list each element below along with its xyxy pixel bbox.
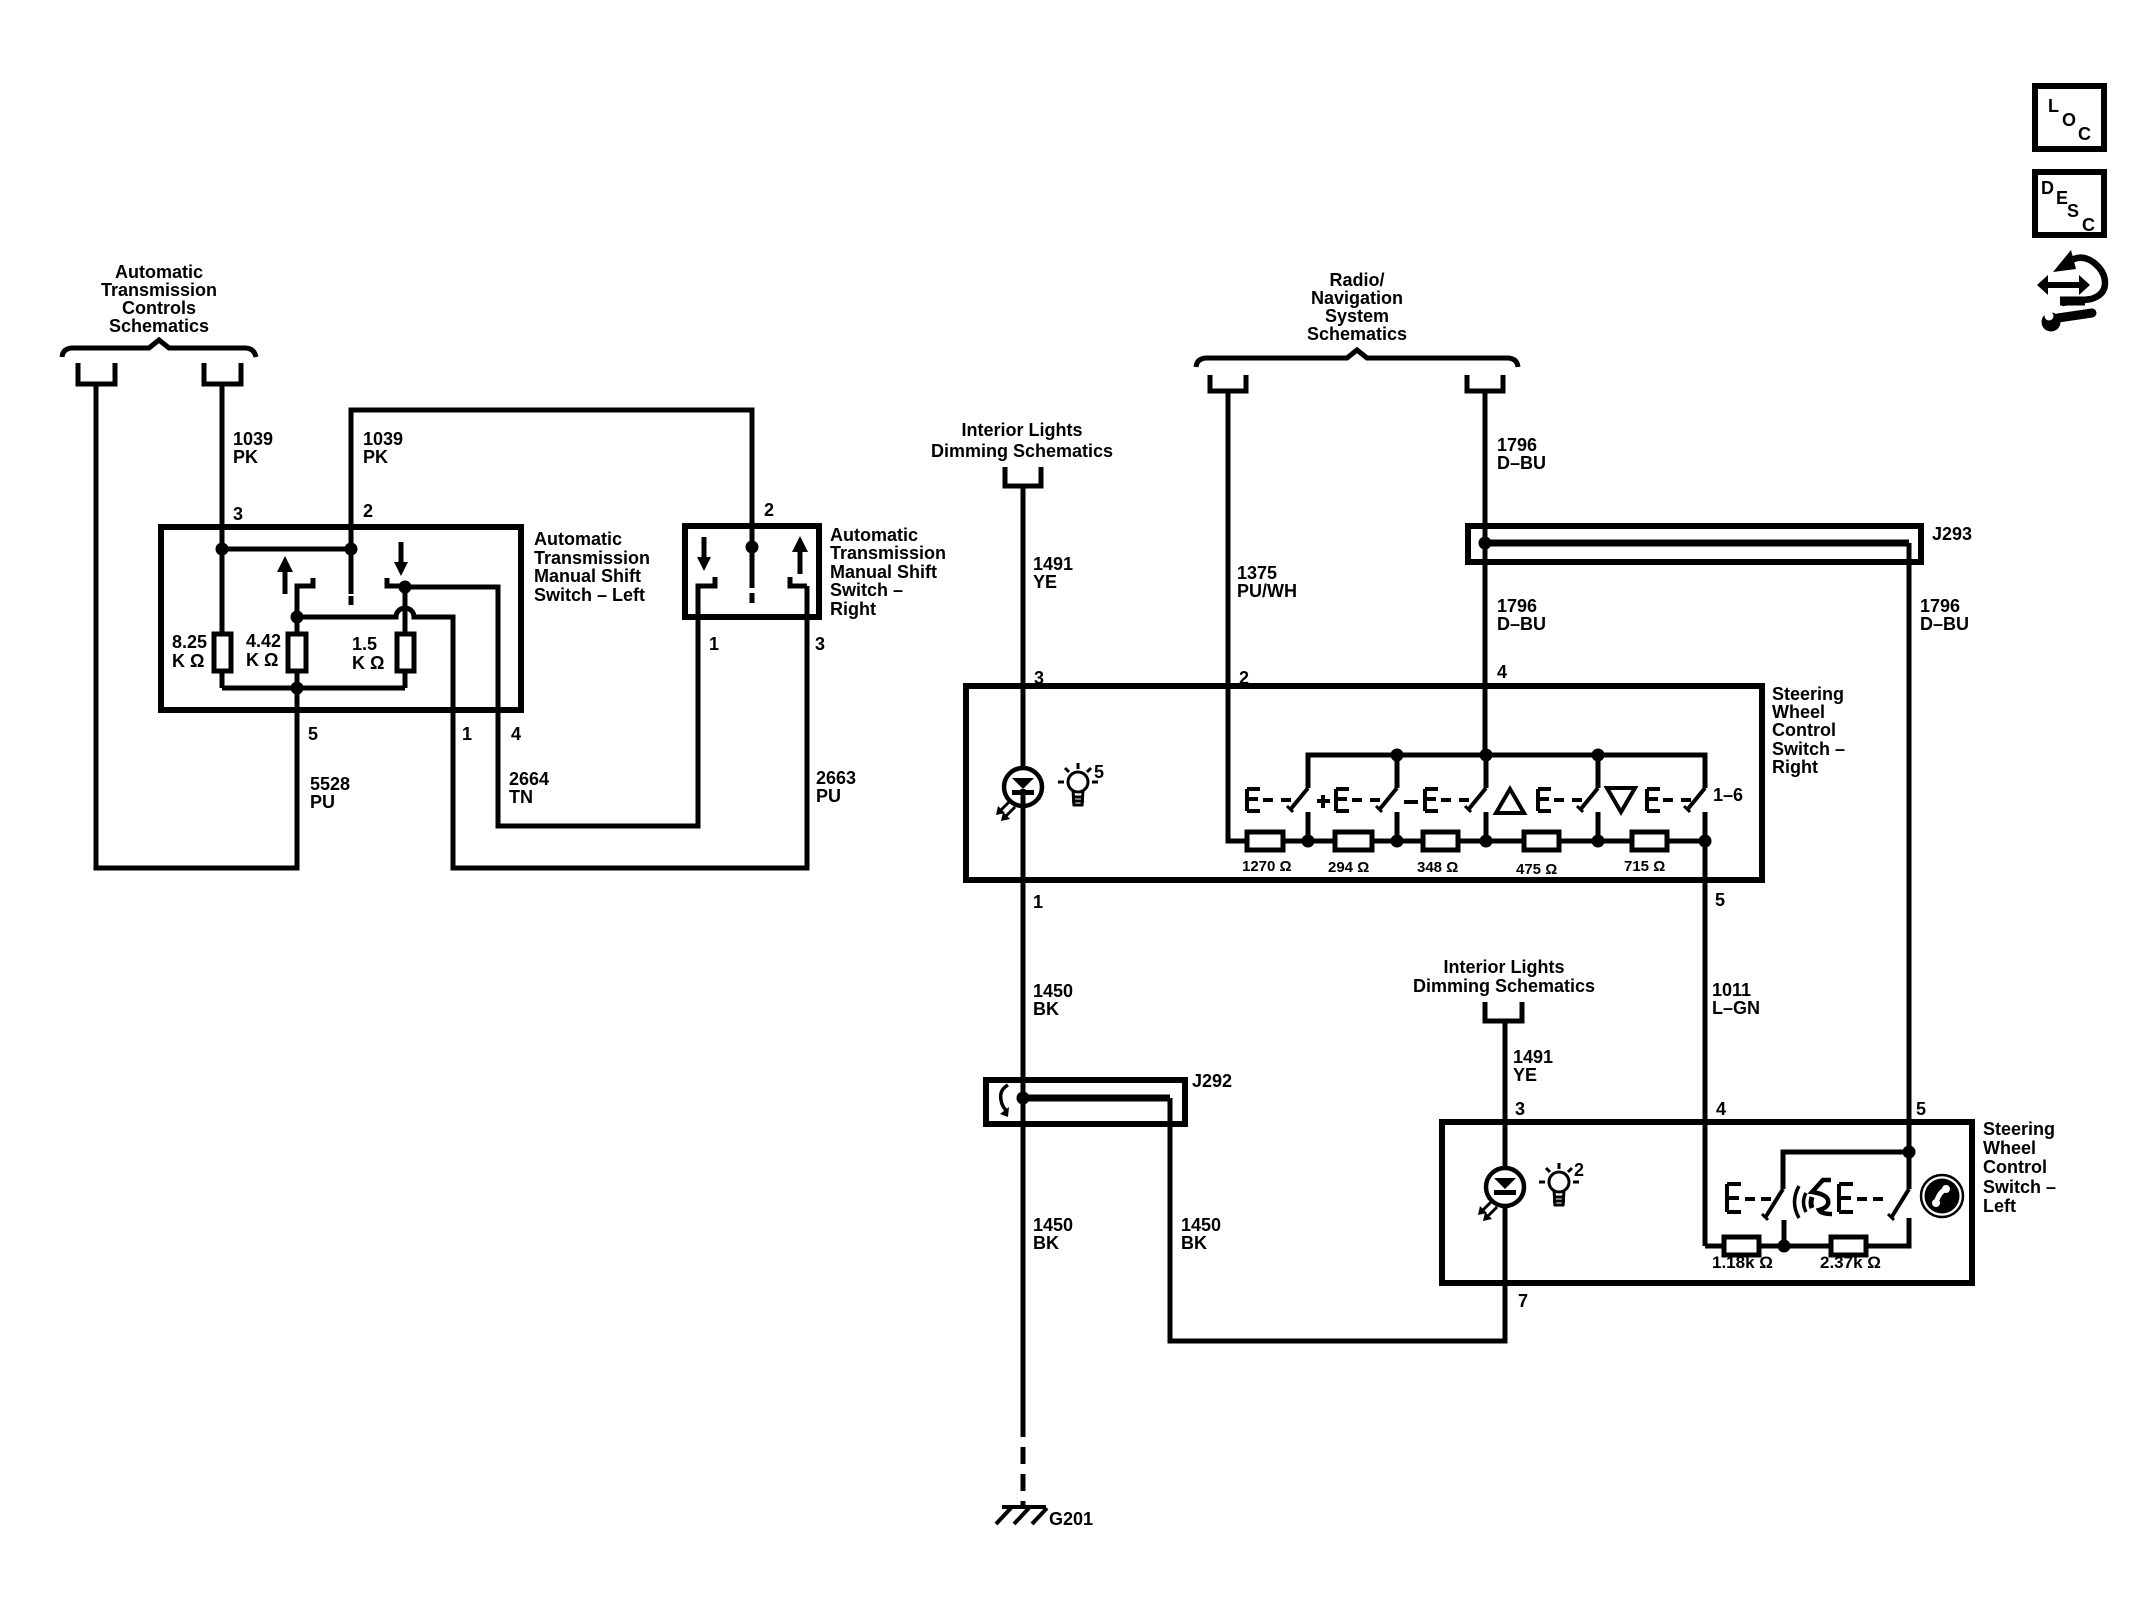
svg-text:Wheel: Wheel <box>1983 1138 2036 1158</box>
svg-text:1–6: 1–6 <box>1713 785 1743 805</box>
svg-text:K Ω: K Ω <box>352 653 384 673</box>
svg-text:D: D <box>2041 178 2054 198</box>
junction dot (stub sw2) <box>1391 835 1404 848</box>
box: Automatic Transmission Manual Shift Switch - Left <box>161 527 521 710</box>
svg-text:Dimming Schematics: Dimming Schematics <box>931 441 1113 461</box>
title: Radio/Navigation System Schematics <box>1307 270 1407 344</box>
svg-text:1796: 1796 <box>1497 435 1537 455</box>
svg-text:475 Ω: 475 Ω <box>1516 861 1557 878</box>
down arrow (right box) <box>697 537 711 571</box>
box: Automatic Transmission Manual Shift Switch - Right <box>685 526 819 617</box>
label 1039 PK (pin 2 wire) <box>363 429 403 467</box>
lamp symbol (illumination, SWCS-Left) <box>1539 1163 1579 1206</box>
up arrow (shift up, left box) <box>277 556 293 594</box>
switch top rail (common, SWCS-Right) <box>1308 755 1705 788</box>
svg-text:Control: Control <box>1983 1157 2047 1177</box>
svg-text:7: 7 <box>1518 1291 1528 1311</box>
svg-text:715 Ω: 715 Ω <box>1624 858 1665 875</box>
LED (backlight, SWCS-Right) <box>996 768 1042 821</box>
connector lead 2 to A/T Controls Schematics <box>204 363 241 384</box>
svg-text:1270 Ω: 1270 Ω <box>1242 858 1292 875</box>
svg-text:Radio/: Radio/ <box>1329 270 1384 290</box>
label 2664 TN <box>509 769 549 807</box>
svg-text:1: 1 <box>462 724 472 744</box>
down arrow (shift down, left box) <box>394 542 408 576</box>
wire 1491 continues through LED to pin 1 <box>1021 806 1026 880</box>
wire 1491 through LED to pin 7 <box>1503 1206 1508 1283</box>
svg-text:Transmission: Transmission <box>534 548 650 568</box>
phone icon <box>1921 1175 1963 1217</box>
wire 1011 L-GN (SWCS-Right pin 5 to SWCS-Left pin 4) <box>1703 841 1708 1246</box>
junction dot (rail / pin 5) <box>291 682 304 695</box>
resistor 2.37k Ohm <box>1831 1237 1866 1255</box>
connector lead right to Radio/Navigation Schematics <box>1467 375 1503 391</box>
junction dot (top rail / 1796 pin 5) <box>1903 1146 1916 1159</box>
svg-text:Right: Right <box>1772 757 1818 777</box>
junction dot (top rail sw2) <box>1391 749 1404 762</box>
resistor 4.42 KOhm <box>288 634 306 671</box>
resistor 8.25 KOhm <box>214 634 231 671</box>
svg-text:K Ω: K Ω <box>246 650 278 670</box>
svg-text:1375: 1375 <box>1237 563 1277 583</box>
switch 3 (-): riser, contact E, dashes, blade, stub <box>1404 755 1486 841</box>
svg-text:Schematics: Schematics <box>1307 324 1407 344</box>
junction dot (stub sw3) <box>1480 835 1493 848</box>
junction dot (rail / pin 5) <box>1699 835 1712 848</box>
box: Steering Wheel Control Switch - Right <box>966 686 1762 880</box>
brace (Automatic Transmission Controls Schematics) <box>62 340 256 357</box>
wire rail 715-pin5 <box>1667 839 1705 844</box>
splice pack J292 box <box>986 1080 1185 1124</box>
junction dot (stub sw4) <box>1592 835 1605 848</box>
svg-text:C: C <box>2078 124 2091 144</box>
svg-text:Transmission: Transmission <box>830 543 946 563</box>
svg-text:Switch –: Switch – <box>830 580 903 600</box>
phone switch: contact E, dashes, blade, stub <box>1839 1184 1909 1220</box>
svg-text:Dimming Schematics: Dimming Schematics <box>1413 976 1595 996</box>
wire 1375 PU/WH (to SWCS-Right pin 2) <box>1226 391 1231 841</box>
LED (backlight, SWCS-Left) <box>1478 1168 1524 1221</box>
svg-text:Navigation: Navigation <box>1311 288 1403 308</box>
splice pigtail symbol (J292) <box>1000 1085 1009 1117</box>
svg-text:System: System <box>1325 306 1389 326</box>
svg-text:Switch – Left: Switch – Left <box>534 585 645 605</box>
svg-text:1.18k Ω: 1.18k Ω <box>1712 1253 1773 1272</box>
svg-text:4: 4 <box>1716 1099 1726 1119</box>
connector lead to Interior Lights Dimming Schematics (top) <box>1005 467 1041 486</box>
svg-text:Switch –: Switch – <box>1983 1177 2056 1197</box>
wire 1450 BK (SWCS-Right pin 1 to J292 to G201) <box>1021 880 1026 1437</box>
junction dot (J293) <box>1479 537 1492 550</box>
svg-text:1796: 1796 <box>1920 596 1960 616</box>
junction dot (stub sw1) <box>1302 835 1315 848</box>
svg-text:1039: 1039 <box>233 429 273 449</box>
svg-text:J293: J293 <box>1932 524 1972 544</box>
svg-text:YE: YE <box>1033 572 1057 592</box>
wire 1375 bottom rail entry (pin 2 into resistor ladder) <box>1228 686 1247 841</box>
label 1796 D-BU (right branch) <box>1920 596 1969 634</box>
svg-text:1450: 1450 <box>1033 1215 1073 1235</box>
svg-text:Schematics: Schematics <box>109 316 209 336</box>
wire rail 348-475 <box>1458 839 1524 844</box>
svg-text:1796: 1796 <box>1497 596 1537 616</box>
wire rail 294-348 <box>1372 839 1423 844</box>
svg-text:Control: Control <box>1772 720 1836 740</box>
svg-text:4: 4 <box>1497 662 1507 682</box>
wire 1796 D-BU (J293 branch, right vertical) <box>1907 543 1912 1152</box>
junction dot (top rail / 1796 pin 4) <box>1480 749 1493 762</box>
wire 2664 TN (pin 4 to right switch pin 1) <box>405 586 698 826</box>
wire 5528 PU (connector 1 to pin 5) <box>96 384 297 868</box>
svg-text:Automatic: Automatic <box>115 262 203 282</box>
up arrow (right box) <box>792 536 808 574</box>
wire 2663 PU (pin 1 to right switch pin 3) with hop over 1.5K wire <box>297 586 807 868</box>
resistor 1.18k Ohm <box>1724 1237 1759 1255</box>
voice switch: contact E, dashes, blade, stub <box>1727 1184 1784 1246</box>
title: Automatic Transmission Controls Schematics <box>101 262 217 336</box>
svg-text:J292: J292 <box>1192 1071 1232 1091</box>
svg-text:Automatic: Automatic <box>534 529 622 549</box>
J292 bus bar <box>1023 1095 1170 1102</box>
svg-text:Steering: Steering <box>1983 1119 2055 1139</box>
label 8.25 K Ohm <box>172 632 207 671</box>
switch top rail (SWCS-Left) <box>1783 1152 1909 1189</box>
svg-text:L: L <box>2048 96 2059 116</box>
down switch contact hook (right box) <box>698 577 715 617</box>
svg-text:D–BU: D–BU <box>1497 614 1546 634</box>
svg-text:1: 1 <box>1033 892 1043 912</box>
svg-text:BK: BK <box>1181 1233 1207 1253</box>
connector lead 1 to A/T Controls Schematics <box>78 363 115 384</box>
svg-text:Automatic: Automatic <box>830 525 918 545</box>
svg-text:3: 3 <box>233 504 243 524</box>
splice pack J293 box <box>1468 526 1921 562</box>
svg-text:BK: BK <box>1033 999 1059 1019</box>
label 1039 PK (pin 3 wire) <box>233 429 273 467</box>
svg-text:TN: TN <box>509 787 533 807</box>
wire 1039 PK (pin 2 to right switch pin 2) <box>351 410 752 594</box>
svg-text:BK: BK <box>1033 1233 1059 1253</box>
svg-text:Transmission: Transmission <box>101 280 217 300</box>
title: Interior Lights Dimming Schematics (top) <box>931 420 1113 461</box>
svg-text:1491: 1491 <box>1513 1047 1553 1067</box>
svg-text:2: 2 <box>363 501 373 521</box>
wire rail 1.18k-2.37k <box>1759 1244 1831 1249</box>
svg-text:D–BU: D–BU <box>1920 614 1969 634</box>
wire 1011 rail into 1.18k <box>1705 1244 1724 1249</box>
svg-text:L–GN: L–GN <box>1712 998 1760 1018</box>
J293 bus bar and branch wire 1796 D-BU down to SWCS-Left pin 5 <box>1485 540 1909 547</box>
resistor 348 Ohm <box>1423 832 1458 850</box>
svg-text:Manual Shift: Manual Shift <box>534 566 641 586</box>
junction dot (pin 2 common, right box) <box>746 541 759 554</box>
svg-text:1450: 1450 <box>1033 981 1073 1001</box>
svg-text:Interior Lights: Interior Lights <box>962 420 1083 440</box>
wire 1491 YE (to SWCS-Right pin 3) <box>1021 486 1026 768</box>
dashed wire to ground <box>1021 1447 1026 1507</box>
DESC button box <box>2035 172 2104 235</box>
resistor 715 Ohm <box>1632 832 1667 850</box>
svg-text:Manual Shift: Manual Shift <box>830 562 937 582</box>
svg-text:C: C <box>2082 215 2095 235</box>
svg-text:2: 2 <box>1574 1160 1584 1180</box>
label 1011 L-GN <box>1712 980 1760 1018</box>
wire 4.42K top stub <box>295 617 300 634</box>
junction dot (pin2/jumper) <box>345 543 358 556</box>
svg-text:PU/WH: PU/WH <box>1237 581 1297 601</box>
wire rail 1270-294 <box>1283 839 1335 844</box>
connector lead to Interior Lights Dimming Schematics (lower) <box>1485 1002 1522 1021</box>
svg-text:Interior Lights: Interior Lights <box>1444 957 1565 977</box>
svg-text:1: 1 <box>709 634 719 654</box>
wire rail 475-715 <box>1559 839 1632 844</box>
svg-text:Switch –: Switch – <box>1772 739 1845 759</box>
svg-text:5: 5 <box>1916 1099 1926 1119</box>
svg-text:1491: 1491 <box>1033 554 1073 574</box>
LOC button box <box>2035 86 2104 149</box>
svg-text:4.42: 4.42 <box>246 631 281 651</box>
svg-text:8.25: 8.25 <box>172 632 207 652</box>
label 1450 BK (J292 branch) <box>1181 1215 1221 1253</box>
svg-text:1450: 1450 <box>1181 1215 1221 1235</box>
junction dot (J292) <box>1017 1092 1030 1105</box>
svg-text:4: 4 <box>511 724 521 744</box>
label 1796 D-BU (above J293) <box>1497 435 1546 473</box>
svg-text:5: 5 <box>1094 762 1104 782</box>
wire 1039 PK (connector 2 to pin 3) <box>220 384 225 634</box>
svg-text:5: 5 <box>1715 890 1725 910</box>
label 5528 PU <box>310 774 350 812</box>
switch 5 (seek down triangle): riser, contact E, dashes, blade, stub <box>1607 788 1705 841</box>
wire rail 2.37k to phone switch stub <box>1866 1218 1909 1246</box>
svg-text:2664: 2664 <box>509 769 549 789</box>
wire 1.5K top (from down contact) <box>403 587 408 634</box>
resistor 1.5 KOhm <box>397 634 414 671</box>
label: Steering Wheel Control Switch - Right <box>1772 684 1845 777</box>
svg-text:348 Ω: 348 Ω <box>1417 859 1458 876</box>
junction dot (down contact / 1.5K) <box>399 581 412 594</box>
svg-text:PK: PK <box>233 447 258 467</box>
ground G201 symbol <box>996 1507 1047 1524</box>
svg-text:294 Ω: 294 Ω <box>1328 859 1369 876</box>
junction dot (pin3/jumper) <box>216 543 229 556</box>
svg-text:Wheel: Wheel <box>1772 702 1825 722</box>
box: Steering Wheel Control Switch - Left <box>1442 1122 1972 1283</box>
label 1491 YE (lower) <box>1513 1047 1553 1085</box>
connector lead left to Radio/Navigation Schematics <box>1210 375 1246 391</box>
svg-text:Steering: Steering <box>1772 684 1844 704</box>
svg-text:5: 5 <box>308 724 318 744</box>
svg-text:5528: 5528 <box>310 774 350 794</box>
label 2663 PU <box>816 768 856 806</box>
svg-text:2: 2 <box>764 500 774 520</box>
resistor 294 Ohm <box>1335 832 1372 850</box>
wire 1796 D-BU (connector to J293 to SWCS-Right pin 4) <box>1483 391 1488 755</box>
down switch contact hook (left box) <box>387 578 405 586</box>
up switch contact hook (left box) <box>297 578 313 617</box>
wire resistor common rail (pin 5) <box>222 686 405 691</box>
wire 1491 YE (to SWCS-Left pin 3) <box>1503 1021 1508 1168</box>
label 1796 D-BU (below J293 left) <box>1497 596 1546 634</box>
svg-text:D–BU: D–BU <box>1497 453 1546 473</box>
svg-text:PU: PU <box>310 792 335 812</box>
label 1450 BK (upper) <box>1033 981 1073 1019</box>
junction dot (voice switch stub) <box>1778 1240 1791 1253</box>
label 1375 PU/WH <box>1237 563 1297 601</box>
svg-text:1011: 1011 <box>1712 980 1751 1000</box>
svg-text:Left: Left <box>1983 1196 2016 1216</box>
title: Interior Lights Dimming Schematics (lower) <box>1413 957 1595 996</box>
wire 1450 BK (J292 branch to SWCS-Left pin 7) <box>1170 1098 1505 1341</box>
label: Automatic Transmission Manual Shift Switch - Left <box>534 529 650 605</box>
switch 1 (no symbol): contact E, dashes, blade, stub <box>1247 788 1308 841</box>
svg-text:PU: PU <box>816 786 841 806</box>
voice recognition icon <box>1795 1180 1833 1218</box>
wire 4.42K bottom stub <box>295 671 300 688</box>
brace (Radio/Navigation System Schematics) <box>1196 350 1518 367</box>
up switch contact hook (right box) <box>790 577 807 586</box>
svg-text:O: O <box>2062 110 2076 130</box>
svg-text:PK: PK <box>363 447 388 467</box>
resistor 1270 Ohm <box>1247 832 1283 850</box>
svg-text:G201: G201 <box>1049 1509 1093 1529</box>
repair/reroute icon: double arrow, loop arrow, wrench <box>2037 250 2105 332</box>
wire 1.5K bottom stub <box>403 671 408 688</box>
svg-text:YE: YE <box>1513 1065 1537 1085</box>
svg-text:2663: 2663 <box>816 768 856 788</box>
svg-text:3: 3 <box>815 634 825 654</box>
svg-text:3: 3 <box>1515 1099 1525 1119</box>
wire 8.25K bottom stub <box>220 671 225 688</box>
svg-text:K Ω: K Ω <box>172 651 204 671</box>
switch common dash (right box) <box>750 593 755 603</box>
label 1.5 K Ohm <box>352 634 384 673</box>
switch 4 (seek up triangle): riser, contact E, dashes, blade, stub <box>1496 755 1598 841</box>
svg-text:1.5: 1.5 <box>352 634 377 654</box>
junction dot (up contact / 4.42K) <box>291 611 304 624</box>
label: Automatic Transmission Manual Shift Switch - Right <box>830 525 946 619</box>
switch common dash (left box) <box>349 596 354 605</box>
lamp symbol (illumination, SWCS-Right) <box>1058 763 1098 806</box>
resistor 475 Ohm <box>1524 832 1559 850</box>
junction dot (top rail sw4) <box>1592 749 1605 762</box>
svg-text:Controls: Controls <box>122 298 196 318</box>
svg-text:S: S <box>2067 201 2079 221</box>
label: Steering Wheel Control Switch - Left <box>1983 1119 2056 1216</box>
svg-text:2.37k Ω: 2.37k Ω <box>1820 1253 1881 1272</box>
label 1450 BK (left of ground wire) <box>1033 1215 1073 1253</box>
jumper wire pin3-pin2 inside box <box>222 547 351 552</box>
label 4.42 K Ohm <box>246 631 281 670</box>
svg-text:Right: Right <box>830 599 876 619</box>
label 1491 YE <box>1033 554 1073 592</box>
switch 2 (+): riser, contact E, dashes, blade, stub <box>1317 755 1397 841</box>
svg-text:1039: 1039 <box>363 429 403 449</box>
